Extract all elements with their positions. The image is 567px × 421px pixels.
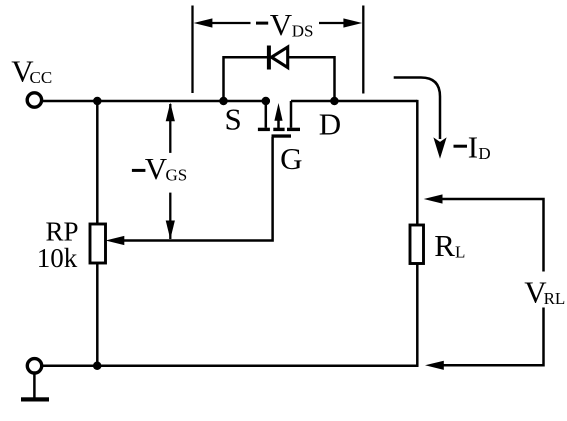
svg-text:I: I [468,130,478,165]
label -VGS [132,169,146,172]
diode D1 loop left leg [224,57,268,101]
VDS dimension: right extension line [362,6,364,94]
node: junction dot diode loop left [219,97,228,106]
svg-text:L: L [455,243,465,262]
svg-text:D: D [478,144,490,163]
VDS dimension: left extension line [191,6,193,94]
diode D1 cathode bar [267,46,271,70]
VDS dimension: right arrow [343,18,362,27]
wire left branch lower: RP bottom to bottom wire [96,263,99,366]
transistor Q1: channel bar left [258,128,270,131]
wire left branch upper: top wire to RP top [96,101,99,224]
transistor Q1: gate bar [272,134,292,137]
node S: source junction dot [262,97,271,106]
svg-text:D: D [319,107,341,142]
wiper arrowhead pointing left at RP [106,236,125,245]
VGS dimension: top arrowhead (points up) [166,103,175,122]
transistor Q1: channel bar middle [273,128,284,131]
current arrow -ID (curved) [394,78,440,140]
svg-text:RL: RL [544,289,566,308]
VGS dimension: vertical line upper [169,104,171,153]
wire bottom: ground circle to right corner [43,364,419,367]
diode D1 loop right leg [288,57,335,101]
VDS dimension: left arrow [194,18,213,27]
ground [33,373,36,398]
resistor RL body [410,225,424,264]
svg-text:R: R [434,228,455,263]
svg-text:S: S [225,102,242,137]
node: junction dot bottom-left branch [93,361,102,370]
terminal ground (open circle) [27,359,41,373]
transistor Q1 P-MOSFET: source lead [265,101,268,128]
wire right branch lower: RL bottom to bottom wire [416,264,419,367]
svg-text:G: G [280,141,302,176]
diode D1 triangle (points left) [272,47,288,68]
VRL bracket: top arrow [424,194,443,203]
VGS dimension: vertical line lower [169,193,171,239]
label -VDS [256,22,268,25]
wire right branch upper: corner to RL top [416,100,419,225]
terminal VCC (open circle) [27,93,41,107]
transistor Q1: gate lead down [124,137,273,241]
VGS dimension: bottom arrowhead (points down) [166,221,175,240]
VRL bracket: bottom arrow [425,361,444,370]
transistor Q1: channel bar right [287,128,300,131]
node D: drain junction dot [330,97,339,106]
node: junction dot top-left branch [93,97,102,106]
svg-text:10k: 10k [37,243,78,273]
label -ID [454,145,468,148]
transistor Q1: body arrow (points up) [277,119,280,128]
svg-text:DS: DS [292,22,314,41]
svg-text:GS: GS [166,166,188,185]
wire top right: drain corner to right corner [291,100,417,103]
resistor RP (potentiometer body) [90,224,106,263]
svg-text:CC: CC [30,68,53,87]
transistor Q1: drain lead [290,101,293,128]
svg-text:V: V [270,7,293,42]
wire top: VCC circle to source dot [43,100,270,103]
svg-text:V: V [145,151,168,186]
